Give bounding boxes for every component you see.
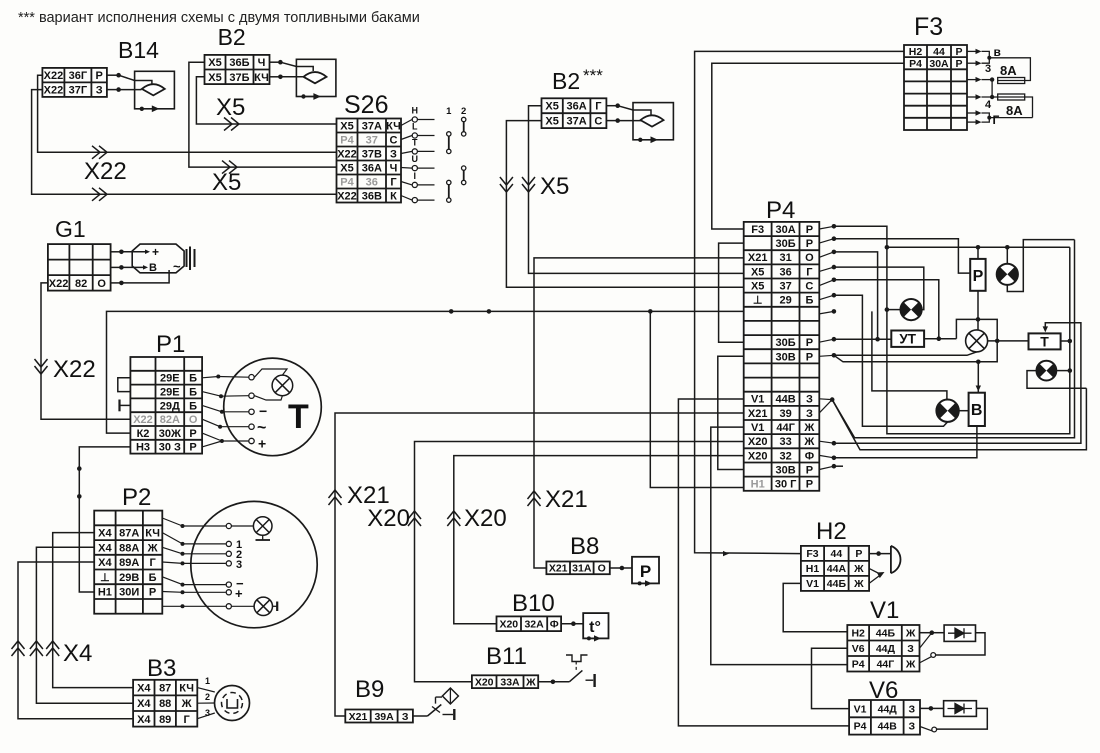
- svg-text:V1: V1: [806, 578, 819, 590]
- svg-text:Р1: Р1: [156, 331, 185, 358]
- svg-text:+: +: [235, 586, 243, 601]
- ground symbol under P2 lamp: [262, 535, 264, 540]
- splice dot 30 net a: [77, 466, 82, 471]
- svg-text:Х4: Х4: [63, 640, 92, 667]
- connector table P1: [130, 357, 202, 454]
- svg-text:S26: S26: [344, 91, 388, 119]
- svg-text:X22: X22: [49, 278, 69, 290]
- svg-text:t°: t°: [589, 619, 601, 636]
- svg-text:Р: Р: [806, 465, 813, 477]
- svg-text:44: 44: [933, 46, 945, 58]
- junction dot net 30Ж b: [487, 309, 492, 314]
- svg-text:Ж: Ж: [181, 698, 192, 710]
- svg-text:89А: 89А: [119, 557, 139, 569]
- wire F3 30А to P4 row1: [712, 63, 904, 229]
- wire lamp2 left: [887, 309, 901, 311]
- svg-text:⊥: ⊥: [100, 572, 110, 584]
- svg-text:F3: F3: [751, 224, 764, 236]
- svg-text:В2: В2: [218, 24, 246, 50]
- wire 36 row4 to lamp2 right: [834, 267, 924, 310]
- svg-text:44Д: 44Д: [878, 703, 898, 715]
- connector table P2: [94, 511, 162, 614]
- svg-text:1: 1: [446, 106, 452, 117]
- indicator lamp 2: [900, 299, 921, 320]
- svg-text:+: +: [258, 436, 266, 452]
- svg-text:V6: V6: [852, 643, 865, 655]
- svg-text:36: 36: [366, 177, 378, 189]
- svg-text:X22: X22: [133, 414, 153, 426]
- svg-text:Р: Р: [149, 587, 156, 599]
- connector table B10: [497, 616, 562, 631]
- diag P4 row2: [819, 239, 834, 243]
- bracket net 30Б rows2-9: [719, 243, 744, 342]
- svg-text:Ж: Ж: [525, 677, 536, 689]
- B8 box bottom mark: [638, 581, 642, 585]
- svg-text:30Б: 30Б: [776, 238, 796, 250]
- instrument dial P2: [191, 501, 317, 627]
- diag P4 row1: [819, 226, 834, 229]
- jumper bracket P1 rows2-3: [118, 378, 131, 392]
- svg-text:Г: Г: [390, 177, 397, 189]
- svg-text:39А: 39А: [374, 711, 394, 723]
- chevron X22 to P1: [35, 359, 48, 374]
- svg-text:Р: Р: [806, 337, 813, 349]
- wire X4 89 net: [18, 562, 133, 719]
- switch S26 contacts H L T U I: [401, 120, 412, 126]
- chevron X5 upper: [224, 118, 239, 131]
- junction 30А bus start: [885, 245, 890, 250]
- svg-text:36В: 36В: [362, 191, 382, 203]
- svg-text:30 З: 30 З: [159, 442, 181, 454]
- svg-text:Б: Б: [805, 295, 813, 307]
- svg-text:Ж: Ж: [853, 563, 864, 575]
- svg-text:X5: X5: [208, 72, 221, 84]
- wire B14 row1 to sender: [107, 74, 119, 76]
- fuse block output в bracket: [967, 50, 977, 52]
- svg-text:30В: 30В: [776, 465, 796, 477]
- wire big lamp right to Т box: [988, 340, 1029, 342]
- connector table V1: [847, 625, 919, 672]
- connector table B9: [345, 710, 413, 723]
- fuel sender icon B14: [135, 71, 175, 109]
- wires B3 to sender: [197, 688, 215, 692]
- svg-text:О: О: [189, 414, 198, 426]
- svg-text:44: 44: [831, 548, 843, 560]
- svg-text:Р2: Р2: [122, 484, 151, 511]
- svg-text:29В: 29В: [119, 572, 139, 584]
- fuel sender icon B3: [215, 686, 250, 721]
- svg-text:З: З: [907, 643, 914, 655]
- svg-text:29Е: 29Е: [160, 387, 180, 399]
- svg-text:Ч: Ч: [390, 163, 398, 175]
- wire net 30Ж P1 to P4: [107, 311, 744, 433]
- sensor box t° (B10): [583, 613, 608, 638]
- fuel sender icon B2: [296, 59, 336, 96]
- svg-text:44В: 44В: [776, 394, 796, 406]
- svg-text:Р4: Р4: [854, 721, 867, 733]
- wire 37 row5 to lamp node: [834, 280, 939, 341]
- svg-text:Т: Т: [412, 137, 418, 147]
- connector table B2: [205, 55, 270, 84]
- wire 39 row14 to lamp4 rail: [832, 388, 1086, 450]
- svg-text:X5: X5: [545, 101, 558, 113]
- svg-text:Р: Р: [855, 548, 862, 560]
- svg-text:30В: 30В: [776, 351, 796, 363]
- svg-text:X21: X21: [349, 711, 368, 723]
- svg-text:Н1: Н1: [751, 479, 765, 491]
- chevron X20 B10 bus: [447, 511, 460, 526]
- svg-text:37: 37: [779, 281, 791, 293]
- svg-text:82: 82: [75, 278, 87, 290]
- wire 30А row1 feed: [834, 226, 1070, 433]
- svg-text:G1: G1: [55, 216, 86, 242]
- svg-text:82А: 82А: [160, 414, 180, 426]
- wire 30В branch to В box: [834, 355, 978, 362]
- wire X22 36Г to S26 37В: [38, 75, 337, 152]
- svg-text:X21: X21: [748, 252, 768, 264]
- svg-text:Н2: Н2: [816, 518, 847, 545]
- svg-text:X22: X22: [44, 85, 64, 97]
- svg-text:Н3: Н3: [136, 442, 150, 454]
- svg-text:С: С: [805, 281, 813, 293]
- wire net 44Г P4 to V1: [711, 427, 848, 664]
- svg-text:⊥: ⊥: [753, 295, 763, 307]
- wire B2*** row1 to sender: [606, 105, 617, 107]
- svg-text:X21: X21: [549, 563, 568, 575]
- chevron X20 B11 bus: [408, 511, 421, 526]
- svg-text:Х4: Х4: [137, 683, 151, 695]
- generator icon G1: [132, 244, 184, 273]
- svg-text:Б: Б: [149, 572, 157, 584]
- svg-text:X20: X20: [475, 677, 494, 689]
- svg-text:***: ***: [583, 66, 603, 85]
- wire X21 39 net to B9: [335, 413, 744, 716]
- svg-text:87: 87: [159, 683, 171, 695]
- indicator lamp 4: [1037, 361, 1057, 381]
- svg-text:Х5: Х5: [212, 169, 241, 196]
- chevron X4 b: [30, 641, 43, 656]
- junction dot net 30Ж a: [449, 309, 454, 314]
- svg-text:Р: Р: [955, 58, 962, 70]
- svg-text:Х4: Х4: [98, 542, 112, 554]
- svg-text:Ж: Ж: [803, 422, 814, 434]
- diag P4 row9: [819, 339, 834, 342]
- diode icon V1: [920, 632, 932, 634]
- svg-text:X20: X20: [748, 450, 768, 462]
- svg-text:44А: 44А: [827, 563, 847, 575]
- wire X5 37А to P4 row5: [506, 121, 743, 288]
- svg-text:З: З: [806, 394, 813, 406]
- lamp top in P2 dial: [253, 517, 272, 536]
- switch icon B9: [413, 715, 428, 717]
- svg-text:29Е: 29Е: [160, 373, 180, 385]
- svg-text:31А: 31А: [572, 563, 592, 575]
- diag P4 row10: [819, 355, 834, 356]
- fuel sender icon B2***: [633, 103, 673, 140]
- svg-text:30Б: 30Б: [776, 337, 796, 349]
- wire net 30Г branch to P4 row19: [650, 311, 743, 487]
- svg-text:О: О: [598, 563, 606, 575]
- lamp in P1 dial: [272, 375, 293, 396]
- voltmeter box В: [969, 393, 985, 426]
- chevron X5 bus right: [522, 177, 535, 192]
- svg-text:Х4: Х4: [137, 714, 151, 726]
- svg-text:КЧ: КЧ: [254, 72, 269, 84]
- wire Р box top: [977, 247, 979, 259]
- svg-text:Р4: Р4: [340, 177, 354, 189]
- wire 30Б row2 to relay P: [834, 239, 970, 273]
- svg-text:30А: 30А: [929, 58, 949, 70]
- box Т (tachograph): [1029, 333, 1061, 349]
- svg-text:X20: X20: [499, 619, 518, 631]
- svg-text:І: І: [414, 171, 417, 181]
- fuse F1 8A: [998, 78, 1025, 84]
- svg-text:Ж: Ж: [905, 628, 916, 640]
- svg-text:Н1: Н1: [98, 587, 112, 599]
- svg-text:X5: X5: [340, 121, 353, 133]
- wire P1 lamp leads: [255, 369, 288, 377]
- svg-text:О: О: [805, 252, 814, 264]
- wire G1 82 to generator ~: [111, 282, 122, 284]
- svg-text:3: 3: [985, 63, 991, 75]
- svg-text:Б: Б: [189, 400, 197, 412]
- svg-text:37В: 37В: [362, 149, 382, 161]
- svg-text:Ч: Ч: [258, 57, 266, 69]
- switch icon B11: [538, 681, 569, 683]
- svg-text:Ф: Ф: [805, 450, 814, 462]
- svg-text:3: 3: [205, 708, 210, 718]
- svg-text:F3: F3: [914, 13, 943, 41]
- svg-text:+: +: [152, 245, 159, 259]
- wire Т right to rail: [1061, 340, 1070, 342]
- svg-text:Н2: Н2: [909, 46, 923, 58]
- svg-text:Р4: Р4: [766, 197, 795, 224]
- connector table F3: [904, 45, 967, 130]
- svg-text:37А: 37А: [567, 116, 587, 128]
- svg-text:30И: 30И: [119, 587, 139, 599]
- svg-text:Т: Т: [1040, 334, 1049, 350]
- svg-text:X20: X20: [464, 505, 507, 532]
- svg-text:К2: К2: [137, 428, 150, 440]
- svg-text:З: З: [909, 721, 916, 733]
- wire 30В row10 to big lamp: [834, 352, 977, 355]
- svg-text:30А: 30А: [776, 224, 796, 236]
- wire H2 44Б to V1: [783, 583, 847, 631]
- svg-text:31: 31: [779, 252, 791, 264]
- svg-text:X5: X5: [545, 116, 558, 128]
- svg-text:К: К: [390, 191, 397, 203]
- svg-text:Н2: Н2: [851, 628, 865, 640]
- svg-text:КЧ: КЧ: [386, 121, 401, 133]
- svg-text:В11: В11: [486, 643, 527, 670]
- svg-text:Р: Р: [955, 46, 962, 58]
- svg-text:X20: X20: [367, 505, 410, 532]
- svg-text:Н1: Н1: [806, 563, 820, 575]
- svg-text:Х4: Х4: [137, 698, 151, 710]
- wire X22 37Г to S26 36В: [32, 90, 337, 195]
- svg-text:X5: X5: [751, 281, 764, 293]
- wire X20 32 net to B10: [454, 456, 744, 624]
- svg-text:Ж: Ж: [803, 436, 814, 448]
- wire V1 44Д to V6: [812, 648, 850, 708]
- svg-text:З: З: [909, 703, 916, 715]
- wire 33 row16 to T-box rail: [834, 323, 1081, 443]
- svg-text:30Ж: 30Ж: [159, 428, 181, 440]
- connector table B11: [472, 675, 538, 688]
- svg-text:Р4: Р4: [852, 659, 865, 671]
- svg-text:39: 39: [779, 408, 791, 420]
- wire X4 88 net: [36, 547, 133, 703]
- diag P4 row7: [819, 311, 834, 314]
- svg-text:37: 37: [366, 135, 378, 147]
- svg-text:КЧ: КЧ: [145, 528, 160, 540]
- B10 box bottom mark: [587, 636, 591, 640]
- svg-text:8А: 8А: [1006, 103, 1023, 118]
- svg-text:Х4: Х4: [98, 557, 112, 569]
- svg-text:В: В: [971, 402, 983, 419]
- horn icon H2: [891, 546, 901, 573]
- svg-text:В2: В2: [552, 68, 580, 94]
- wire X22 82 to P1 row5: [41, 283, 130, 419]
- chevron X22 lower: [92, 188, 107, 201]
- connector table P4: [744, 222, 820, 491]
- svg-text:В10: В10: [512, 590, 555, 617]
- svg-text:Р: Р: [189, 428, 196, 440]
- svg-text:X5: X5: [340, 163, 353, 175]
- svg-text:Х5: Х5: [216, 94, 245, 121]
- svg-text:V1: V1: [751, 422, 764, 434]
- wire net 30 P1 row7 to P2 row6: [79, 447, 130, 592]
- svg-text:1: 1: [205, 676, 210, 686]
- wires P2 rows to terminals: [162, 518, 182, 526]
- connector table B8: [546, 562, 609, 575]
- svg-text:Х5: Х5: [540, 173, 569, 200]
- lamp bottom in P2 dial: [254, 597, 272, 615]
- svg-text:−: −: [259, 403, 267, 419]
- svg-text:Р: Р: [806, 479, 813, 491]
- svg-text:X5: X5: [751, 266, 764, 278]
- svg-text:С: С: [594, 116, 602, 128]
- diag P4 row6: [819, 295, 834, 300]
- wire X21 31 net to B8: [534, 258, 744, 568]
- diag P4 row4: [819, 267, 834, 271]
- svg-text:32А: 32А: [524, 619, 544, 631]
- splice dot 30 net b: [77, 494, 82, 499]
- wire X5 36А to P4 row4: [529, 106, 744, 274]
- wire 32 row17 to В box bottom: [834, 426, 977, 458]
- svg-text:3: 3: [236, 559, 242, 571]
- junction dot net 30Ж c: [648, 309, 653, 314]
- svg-text:Р: Р: [806, 224, 813, 236]
- wire Р box bottom bracket: [977, 291, 979, 330]
- svg-text:З: З: [390, 149, 397, 161]
- svg-text:З: З: [402, 711, 409, 723]
- diag P4 row18: [819, 466, 834, 469]
- svg-text:Ж: Ж: [853, 578, 864, 590]
- junction lamp1 top: [1005, 245, 1010, 250]
- big indicator lamp: [966, 330, 988, 352]
- svg-text:Р: Р: [640, 562, 651, 581]
- svg-text:X5: X5: [208, 57, 221, 69]
- svg-text:V1: V1: [751, 394, 764, 406]
- svg-text:37Г: 37Г: [69, 85, 88, 97]
- wire F3 44 to H2 (net 44): [695, 51, 904, 553]
- svg-text:V1: V1: [854, 703, 867, 715]
- svg-text:32: 32: [779, 450, 791, 462]
- svg-text:Р: Р: [973, 268, 984, 285]
- svg-text:Р: Р: [189, 442, 196, 454]
- junction Р top: [976, 245, 981, 250]
- wire G1 row1: [111, 251, 122, 253]
- wire УТ right to big lamp node: [924, 338, 956, 340]
- sensor box Р (B8): [632, 557, 659, 584]
- connector table H2: [801, 546, 869, 591]
- svg-text:З: З: [96, 85, 103, 97]
- svg-text:4: 4: [985, 99, 992, 111]
- wire G1 row2: [111, 266, 122, 268]
- wire B2 row1 to sender: [270, 61, 281, 63]
- indicator lamp 3: [936, 400, 958, 422]
- svg-text:Х22: Х22: [84, 158, 127, 185]
- svg-text:29Д: 29Д: [160, 400, 180, 412]
- wire X20 33 net to B11: [415, 442, 744, 682]
- svg-text:Г: Г: [183, 714, 190, 726]
- svg-text:В8: В8: [570, 533, 599, 560]
- connector table G1: [48, 244, 111, 291]
- wire 31 row3 to УТ junction: [834, 252, 878, 339]
- svg-text:V1: V1: [870, 597, 899, 624]
- svg-text:29: 29: [779, 295, 791, 307]
- svg-text:36А: 36А: [362, 163, 382, 175]
- svg-text:~: ~: [257, 420, 266, 437]
- svg-text:Р: Р: [806, 238, 813, 250]
- fuse F2 8A: [998, 94, 1025, 100]
- ground symbol P1 row4: [120, 404, 131, 406]
- wire B10 to box: [561, 623, 583, 625]
- svg-text:X21: X21: [545, 486, 588, 513]
- svg-text:X20: X20: [748, 436, 768, 448]
- wire row7 to lamp3 top: [872, 311, 947, 399]
- svg-text:36Г: 36Г: [69, 70, 88, 82]
- diag P4 row16: [819, 441, 834, 443]
- svg-text:U: U: [412, 154, 419, 164]
- svg-text:З: З: [806, 408, 813, 420]
- svg-text:X22: X22: [337, 191, 357, 203]
- wire B14 row2 to sender: [107, 89, 119, 91]
- chevron X5 bus left: [500, 177, 513, 192]
- svg-text:8А: 8А: [1000, 63, 1017, 78]
- diode icon V6: [920, 707, 931, 709]
- svg-text:L: L: [412, 122, 418, 132]
- relay box Р: [970, 259, 985, 291]
- svg-text:44В: 44В: [878, 721, 898, 733]
- svg-text:В9: В9: [355, 676, 384, 703]
- wire X5 37Б to S26 (net 37А): [196, 77, 336, 124]
- svg-text:Р4: Р4: [340, 135, 354, 147]
- svg-text:44Б: 44Б: [876, 628, 896, 640]
- wire 30Б row9 to УТ: [834, 338, 891, 340]
- svg-text:36Б: 36Б: [229, 57, 249, 69]
- chevron X4 a: [12, 641, 25, 656]
- svg-text:Г: Г: [149, 557, 156, 569]
- diag P4 row3: [819, 252, 834, 257]
- wire lamp right loop to В box: [978, 341, 997, 393]
- connector table S26: [337, 119, 402, 203]
- wire B2*** row2 to sender: [606, 120, 617, 122]
- svg-text:44Д: 44Д: [876, 643, 896, 655]
- svg-text:44Г: 44Г: [877, 659, 895, 671]
- chevron X22 upper: [92, 146, 107, 159]
